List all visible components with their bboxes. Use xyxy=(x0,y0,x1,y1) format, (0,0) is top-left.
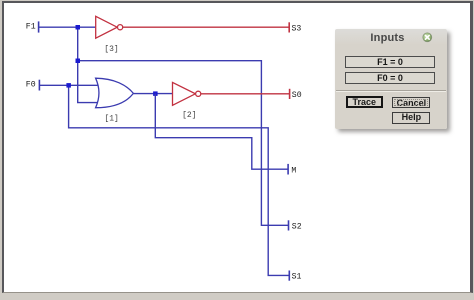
svg-text:S3: S3 xyxy=(292,24,302,33)
svg-text:M: M xyxy=(291,167,296,176)
wire inverter [3] output to S3 (red) xyxy=(123,26,289,28)
wire inverter [2] output to S0 (red) xyxy=(201,93,290,95)
wire F1 input to inverter [3] xyxy=(39,26,96,28)
Help button xyxy=(392,112,430,123)
wire OR output to inverter [2] xyxy=(133,93,172,95)
input terminal F1 xyxy=(26,21,39,32)
inverter U3 xyxy=(96,16,123,54)
output terminal S0 xyxy=(290,89,302,100)
wire F1 branch down to OR gate lower input xyxy=(78,27,98,102)
output terminal S3 xyxy=(289,22,301,33)
field F0 = 0 xyxy=(345,72,435,84)
junction on F1 wire xyxy=(76,25,81,30)
junction on F0 wire xyxy=(66,83,71,88)
dialog close button xyxy=(420,30,434,44)
wire OR output net to M terminal xyxy=(155,94,288,170)
input terminal F0 xyxy=(26,80,40,91)
Trace button xyxy=(346,96,384,108)
svg-text:F1: F1 xyxy=(26,22,36,31)
output terminal S2 xyxy=(289,220,302,231)
svg-text:S1: S1 xyxy=(292,272,302,281)
wire F1 net to S2 terminal xyxy=(78,61,289,226)
OR gate U1 xyxy=(96,78,134,123)
field F1 = 0 xyxy=(345,56,435,68)
separator xyxy=(336,90,446,92)
svg-text:[3]: [3] xyxy=(104,45,118,54)
svg-text:S2: S2 xyxy=(292,222,302,231)
output terminal M xyxy=(288,164,296,176)
inverter U2 xyxy=(173,82,201,120)
svg-text:S0: S0 xyxy=(292,91,302,100)
Inputs dialog xyxy=(335,29,447,129)
dialog title xyxy=(335,32,440,44)
junction on F1 branch at S2 tap xyxy=(76,59,81,64)
junction on OR output wire xyxy=(153,91,158,96)
wire F0 net down to S1 terminal xyxy=(69,85,289,275)
svg-text:F0: F0 xyxy=(26,81,36,90)
svg-text:[1]: [1] xyxy=(104,114,118,123)
Cancel button xyxy=(392,97,430,109)
output terminal S1 xyxy=(289,271,301,282)
wire F0 input to OR gate upper input xyxy=(39,84,98,86)
svg-text:[2]: [2] xyxy=(182,111,196,120)
